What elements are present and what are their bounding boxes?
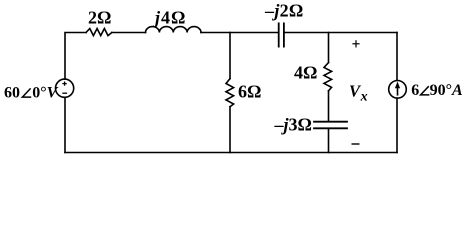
angle symbol (22, 88, 31, 97)
voltage source plus sign (62, 82, 67, 94)
svg-text:6Ω: 6Ω (238, 82, 261, 102)
wire 4ohm to -j3 capacitor (328, 91, 330, 122)
wire top-left segment (65, 33, 86, 80)
voltage source V1 circle (56, 79, 74, 97)
wire 6ohm branch upper (229, 33, 231, 79)
resistor R 2ohm zigzag (86, 29, 112, 36)
minus sign of Vx (352, 143, 360, 145)
svg-text:–j3Ω: –j3Ω (274, 114, 312, 134)
svg-text:–j2Ω: –j2Ω (264, 1, 304, 21)
svg-text:2Ω: 2Ω (88, 8, 111, 28)
wire 4ohm branch upper (328, 33, 330, 63)
inductor L j4ohm (146, 27, 202, 33)
wire inductor to capacitor -j2 (201, 32, 278, 34)
svg-text:j4Ω: j4Ω (152, 8, 186, 28)
wire bottom (65, 152, 397, 154)
current source arrow (395, 82, 400, 96)
wire right vertical lower (396, 98, 398, 152)
wire capacitor to top-right corner (285, 32, 397, 34)
svg-text:0°V: 0°V (32, 84, 58, 101)
capacitor C -j3ohm plates (314, 121, 347, 123)
current source I1 circle (389, 81, 407, 99)
svg-text:4Ω: 4Ω (294, 63, 317, 83)
resistor R 6ohm zigzag (226, 79, 234, 107)
voltage source minus sign (62, 92, 67, 94)
svg-text:60: 60 (4, 84, 20, 101)
plus sign of Vx (352, 40, 359, 47)
label 60 angle 0 V : source value (4, 84, 59, 101)
svg-text:90°A: 90°A (430, 82, 463, 99)
label 6 angle 90 A : source value (411, 82, 463, 99)
wire -j3 capacitor to bottom (328, 128, 330, 152)
wire between 2ohm and inductor (112, 32, 146, 34)
resistor R 4ohm zigzag (324, 63, 332, 91)
angle symbol (421, 86, 430, 95)
capacitor C -j2ohm plates (278, 23, 280, 46)
wire left vertical lower (64, 97, 66, 152)
wire right vertical upper (396, 33, 398, 81)
svg-text:6: 6 (411, 82, 419, 99)
wire 6ohm branch lower (229, 107, 231, 153)
